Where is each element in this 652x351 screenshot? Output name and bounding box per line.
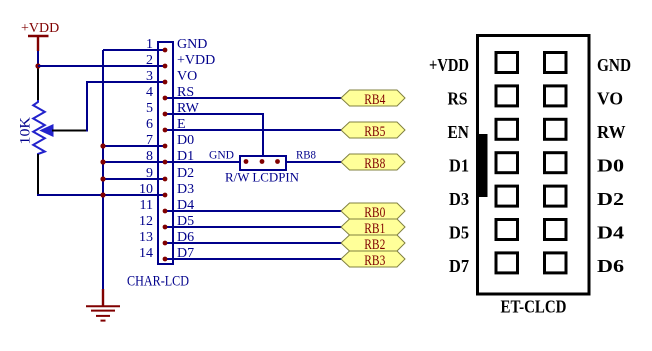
svg-text:GND: GND: [177, 37, 207, 52]
svg-text:D3: D3: [177, 182, 194, 197]
wire +VDD rail to potentiometer (black): [37, 66, 39, 100]
svg-text:7: 7: [146, 133, 153, 148]
svg-text:D6: D6: [597, 256, 624, 276]
svg-text:D3: D3: [449, 189, 469, 209]
wire pin1 GND row: [103, 49, 164, 51]
svg-text:6: 6: [146, 117, 153, 132]
wire GND bus lower stem (maroon): [102, 289, 104, 306]
svg-text:VO: VO: [177, 69, 197, 84]
node junction bus D2: [100, 176, 105, 181]
svg-text:D2: D2: [597, 189, 624, 209]
wire pin8 D1 row to LCDPIN: [103, 161, 246, 163]
svg-text:RS: RS: [448, 89, 468, 109]
wire +VDD stem navy: [37, 51, 39, 67]
wire wiper vertical to VO row: [86, 82, 88, 132]
wire wiper horizontal (black): [52, 130, 88, 132]
pin name labels: [177, 37, 215, 261]
svg-text:+VDD: +VDD: [21, 21, 59, 36]
svg-text:GND: GND: [209, 148, 234, 162]
svg-text:R/W LCDPIN: R/W LCDPIN: [225, 170, 300, 185]
connector ET-CLCD polarity tab: [479, 134, 488, 197]
svg-text:3: 3: [146, 69, 153, 84]
svg-text:CHAR-LCD: CHAR-LCD: [127, 274, 189, 290]
svg-text:RB5: RB5: [364, 124, 385, 140]
svg-text:13: 13: [139, 230, 153, 245]
connector ET-CLCD outer box: [478, 36, 590, 295]
wire GND bus vertical: [102, 50, 104, 290]
wire pot bottom to GND bus / pin10 D3 row: [37, 194, 164, 196]
svg-text:RB8: RB8: [296, 148, 316, 162]
wire pin5 RW vertical to LCDPIN: [262, 113, 264, 160]
svg-text:GND: GND: [597, 55, 631, 75]
net flag RB4: [341, 90, 405, 108]
svg-text:D2: D2: [177, 166, 194, 181]
potentiometer 10K body: [33, 100, 45, 156]
svg-text:ET-CLCD: ET-CLCD: [501, 297, 567, 317]
svg-text:14: 14: [139, 246, 153, 261]
wire pin9 D2 row: [103, 178, 164, 180]
pin numbers 1-14: [139, 37, 153, 261]
ET-CLCD pin squares right column: [545, 53, 567, 273]
svg-text:D6: D6: [177, 230, 194, 245]
svg-text:+VDD: +VDD: [177, 53, 215, 68]
svg-text:VO: VO: [597, 89, 623, 109]
connector CHAR-LCD box: [158, 42, 173, 264]
node junction bus D1: [100, 159, 105, 164]
connector LCDPIN pin 3: [275, 159, 280, 164]
wire pin2 +VDD row: [38, 65, 164, 67]
svg-text:RB4: RB4: [364, 92, 385, 108]
svg-text:D0: D0: [177, 133, 194, 148]
svg-text:D0: D0: [597, 156, 624, 176]
svg-text:RW: RW: [597, 122, 626, 142]
wire pin14 D7 to RB3: [164, 258, 342, 260]
net flag RB8: [341, 154, 405, 172]
svg-text:E: E: [177, 117, 186, 132]
wire pin6 E to RB5: [164, 129, 342, 131]
wire pin7 D0 row: [103, 145, 164, 147]
wire potentiometer bottom lead (black): [37, 154, 39, 196]
potentiometer wiper arrow: [41, 125, 54, 136]
wire pin12 D5 to RB1: [164, 226, 342, 228]
svg-text:11: 11: [140, 198, 153, 213]
svg-text:8: 8: [146, 149, 153, 164]
svg-text:RS: RS: [177, 85, 194, 100]
connector LCDPIN pin 2: [260, 159, 265, 164]
svg-text:5: 5: [146, 101, 153, 116]
svg-text:10K: 10K: [17, 117, 33, 145]
wire LCDPIN to RB8: [287, 161, 342, 163]
svg-text:RB8: RB8: [364, 156, 385, 172]
svg-text:D5: D5: [449, 223, 469, 243]
svg-text:1: 1: [146, 37, 153, 52]
svg-text:D5: D5: [177, 214, 194, 229]
net flag RB0: [341, 203, 405, 221]
node junction bus D3: [100, 192, 105, 197]
svg-text:2: 2: [146, 53, 153, 68]
wire pin5 RW horizontal: [164, 113, 264, 115]
svg-text:D7: D7: [177, 246, 194, 261]
svg-text:D1: D1: [449, 156, 469, 176]
power symbol +VDD: [21, 21, 59, 51]
connector LCDPIN pin 1: [244, 159, 249, 164]
svg-text:RW: RW: [177, 101, 200, 116]
wire pin4 RS to RB4: [164, 97, 342, 99]
wire pin11 D4 to RB0: [164, 210, 342, 212]
svg-text:+VDD: +VDD: [429, 55, 469, 75]
ET-CLCD left pin labels: [429, 55, 469, 276]
connector CHAR-LCD pin dots: [163, 48, 168, 262]
wire pin3 VO row: [86, 81, 164, 83]
svg-text:4: 4: [146, 85, 153, 100]
svg-text:D7: D7: [449, 256, 469, 276]
connector LCDPIN box: [240, 156, 286, 170]
ET-CLCD pin squares left column: [496, 53, 518, 273]
svg-text:RB3: RB3: [364, 253, 385, 269]
ground symbol: [86, 306, 120, 320]
svg-text:9: 9: [146, 166, 153, 181]
node junction bus D0: [100, 143, 105, 148]
net flag RB1: [341, 219, 405, 237]
ET-CLCD right pin labels: [597, 55, 631, 276]
svg-text:EN: EN: [448, 122, 469, 142]
wire pin13 D6 to RB2: [164, 242, 342, 244]
svg-text:D4: D4: [177, 198, 194, 213]
svg-text:10: 10: [139, 182, 153, 197]
net flag RB5: [341, 122, 405, 140]
node junction +VDD / pin2: [35, 63, 40, 68]
net flag RB3: [341, 251, 405, 269]
svg-text:D4: D4: [597, 223, 624, 243]
svg-text:12: 12: [139, 214, 153, 229]
svg-text:D1: D1: [177, 149, 194, 164]
net flag RB2: [341, 235, 405, 253]
